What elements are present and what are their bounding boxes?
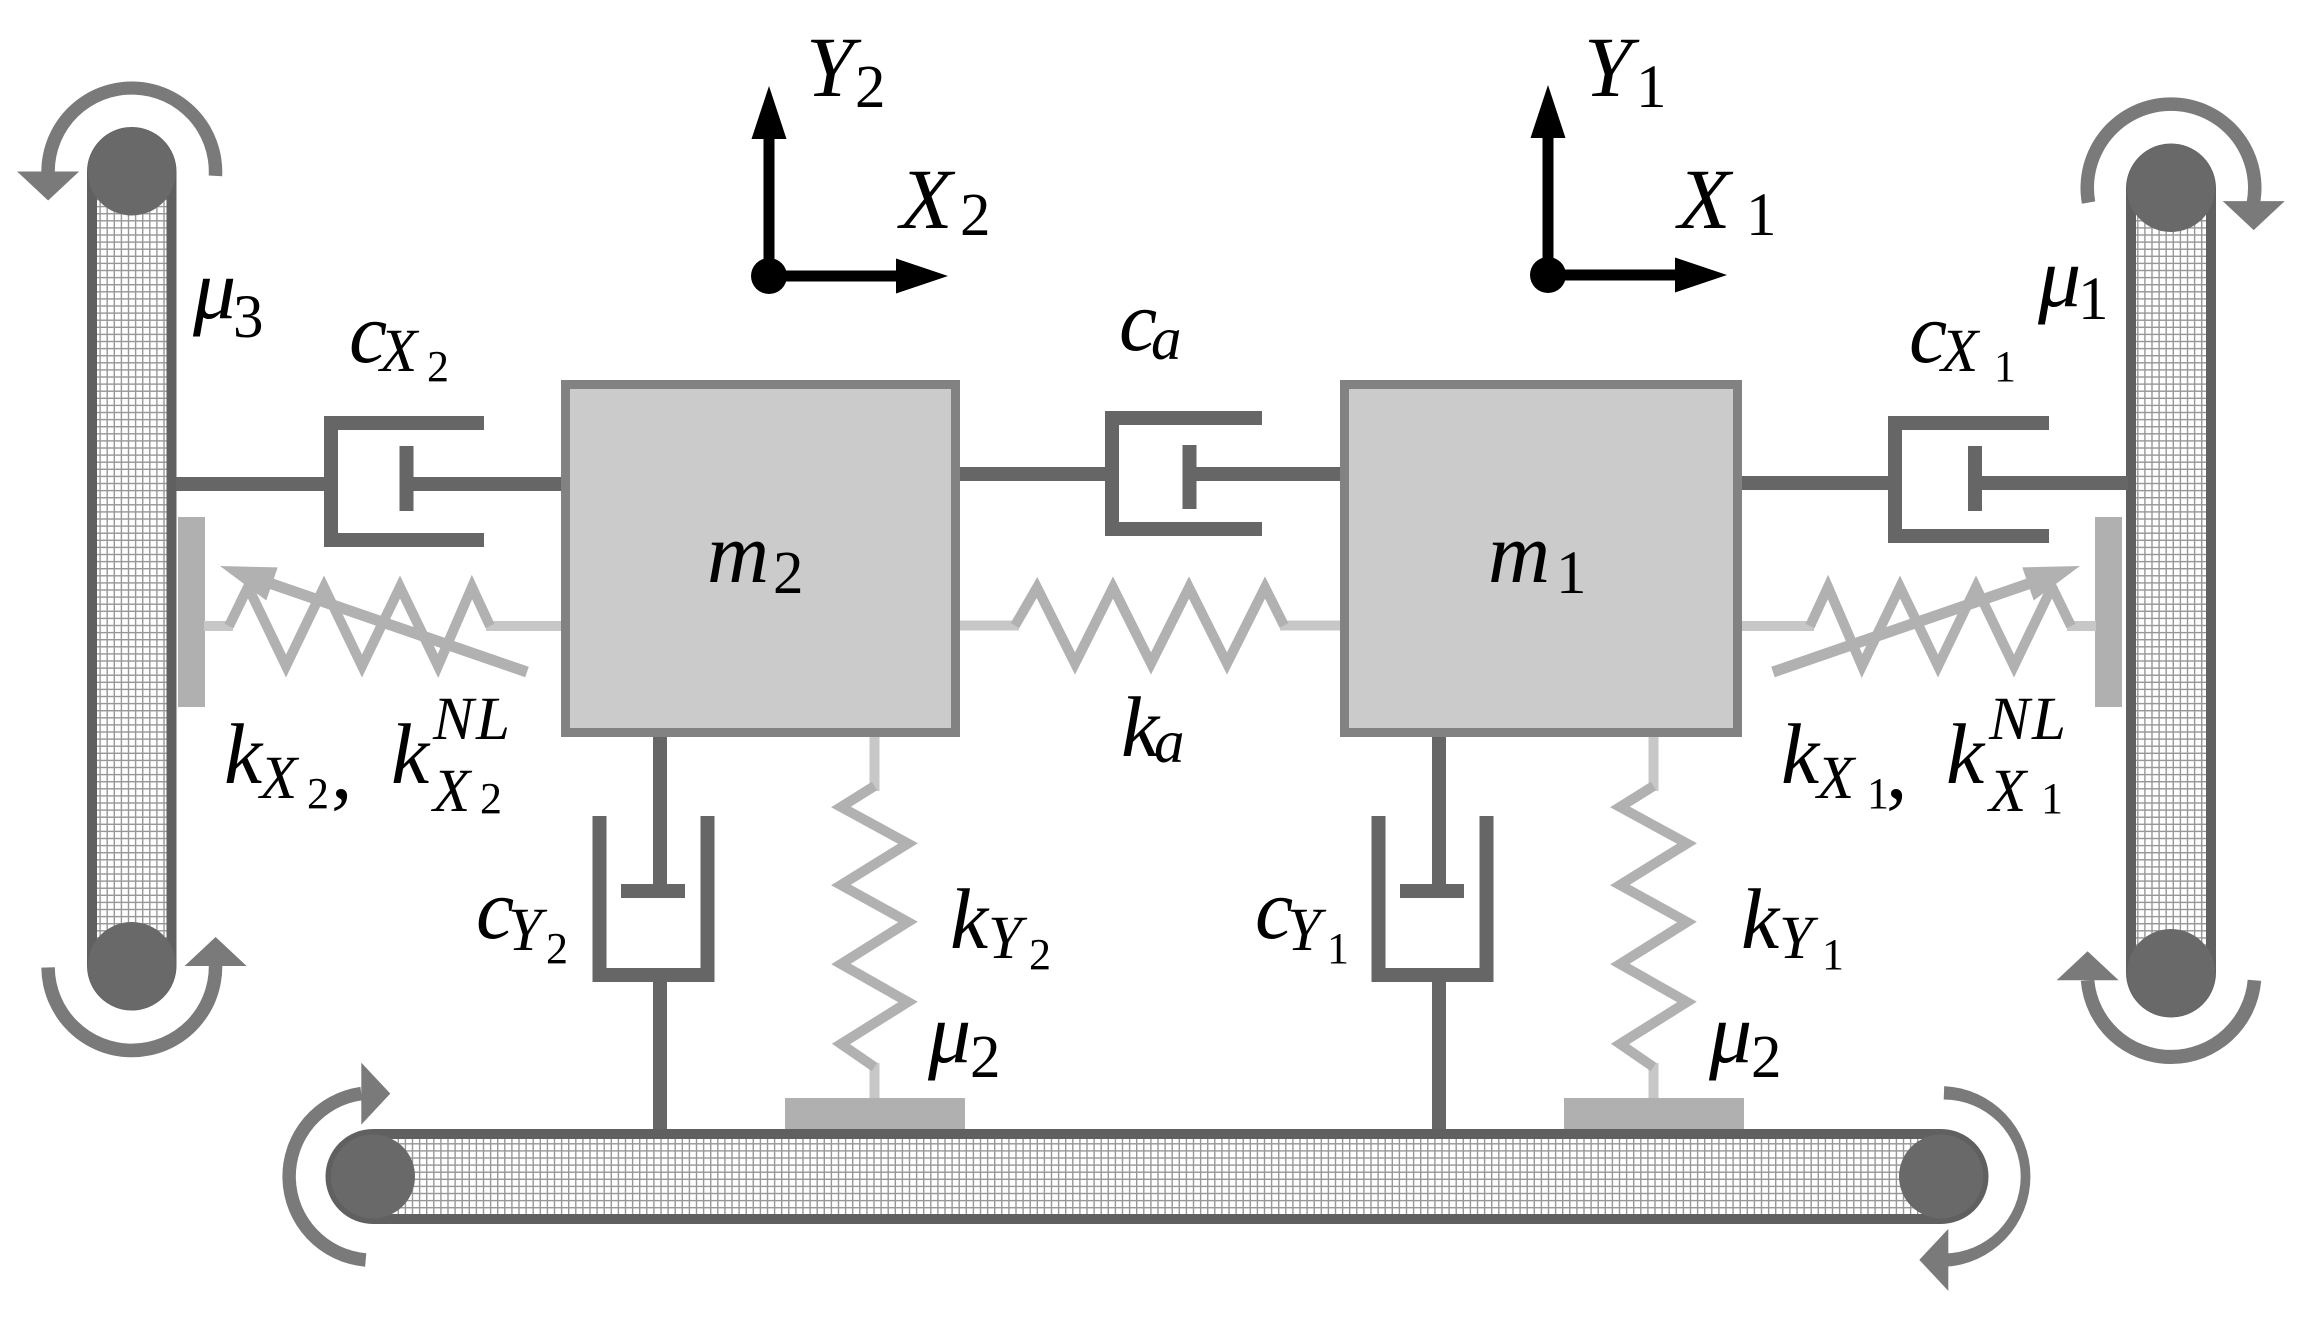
svg-text:μ: μ (192, 241, 236, 337)
pulley (bottom belt right) (1899, 1135, 1983, 1219)
spring kX1 / kX1^NL (nonlinear, m1 to right belt pad) (2067, 621, 2096, 631)
svg-text:m: m (707, 505, 769, 601)
rotation arrow (bottom belt right, clockwise) (1944, 1086, 2031, 1267)
damper cX2 (176, 423, 563, 540)
svg-text:X: X (1675, 151, 1734, 247)
svg-text:1: 1 (1327, 924, 1349, 973)
belt mu3 (left vertical moving surface) (92, 132, 172, 1006)
svg-text:2: 2 (773, 540, 804, 607)
svg-text:2: 2 (1751, 1024, 1782, 1091)
svg-text:Y: Y (1584, 19, 1640, 115)
svg-text:k: k (224, 706, 264, 802)
rotation arrow (right belt bottom, clockwise) (2081, 980, 2261, 1064)
nonlinearity arrow through spring kX2 (263, 581, 528, 672)
svg-text:μ: μ (1708, 985, 1752, 1081)
belt mu1 (right vertical moving surface) (2131, 149, 2211, 1013)
svg-text:N: N (432, 686, 477, 753)
rotation arrow (left belt top, counter-clockwise) (41, 81, 222, 176)
svg-text:k: k (391, 706, 431, 802)
svg-text:2: 2 (1029, 930, 1051, 979)
svg-text:X: X (377, 318, 420, 385)
coordinate axes X1-Y1 (above m1) (1548, 134, 1679, 275)
svg-text:m: m (1488, 505, 1550, 601)
svg-text:a: a (1151, 306, 1182, 373)
svg-text:L: L (475, 686, 510, 753)
svg-text:X: X (897, 151, 956, 247)
svg-text:3: 3 (233, 284, 264, 351)
svg-text:X: X (430, 758, 473, 825)
pulley (right belt top) (2127, 144, 2215, 232)
pulley (bottom belt left) (331, 1135, 415, 1219)
svg-text:,: , (1886, 721, 1908, 817)
svg-text:2: 2 (427, 342, 449, 391)
friction pad on bottom belt under m1 (mu2 contact) (1564, 1098, 1744, 1129)
friction pad on right belt (kX1 contact) (2095, 517, 2122, 707)
svg-text:μ: μ (927, 985, 971, 1081)
belt mu2 (bottom horizontal moving surface) (331, 1134, 1984, 1219)
svg-text:a: a (1154, 709, 1185, 776)
svg-text:L: L (2031, 686, 2066, 753)
spring kY2 (below m2) (870, 735, 880, 791)
damper cY1 (1379, 735, 1487, 1129)
spring kX2 / kX2^NL (nonlinear, m2 to left belt pad) (204, 621, 233, 631)
mass m1 (1345, 385, 1738, 733)
svg-text:k: k (1741, 871, 1781, 967)
svg-text:1: 1 (2041, 774, 2063, 823)
friction pad on bottom belt under m2 (mu2 contact) (785, 1098, 965, 1129)
damper cY2 (600, 735, 708, 1129)
svg-text:X: X (1986, 758, 2029, 825)
svg-text:Y: Y (806, 19, 862, 115)
coordinate axes X2-Y2 (above m2) (769, 135, 900, 276)
rotation arrow (right belt top, clockwise) (2081, 97, 2262, 203)
svg-text:2: 2 (960, 182, 991, 249)
svg-text:1: 1 (1994, 342, 2016, 391)
damper ca (958, 418, 1342, 529)
svg-text:,: , (331, 721, 353, 817)
svg-text:1: 1 (1556, 540, 1587, 607)
svg-text:2: 2 (480, 774, 502, 823)
mass m2 (566, 385, 956, 733)
svg-text:1: 1 (1746, 182, 1777, 249)
spring kY1 (below m1) (1649, 735, 1659, 791)
damper cX1 (1740, 423, 2128, 536)
pulley (right belt bottom) (2127, 929, 2215, 1017)
svg-text:N: N (1988, 686, 2033, 753)
svg-text:k: k (950, 871, 990, 967)
pulley (left belt top) (88, 128, 176, 216)
svg-text:1: 1 (1636, 54, 1667, 121)
svg-text:2: 2 (970, 1024, 1001, 1091)
rotation arrow (bottom belt left, clockwise) (282, 1087, 366, 1267)
svg-text:2: 2 (546, 924, 568, 973)
svg-text:1: 1 (2078, 266, 2109, 333)
svg-text:X: X (257, 745, 300, 812)
svg-text:X: X (1938, 318, 1981, 385)
friction pad on left belt (kX2 contact) (178, 517, 205, 707)
spring ka (between m2 and m1) (960, 621, 1019, 631)
svg-text:X: X (1814, 745, 1857, 812)
svg-text:1: 1 (1822, 930, 1844, 979)
svg-text:k: k (1781, 706, 1821, 802)
pulley (left belt bottom) (88, 922, 176, 1010)
svg-text:2: 2 (307, 769, 329, 818)
svg-text:μ: μ (2037, 229, 2081, 325)
rotation arrow (left belt bottom, counter-clockwise) (41, 966, 222, 1057)
svg-text:k: k (1946, 706, 1986, 802)
nonlinearity arrow through spring kX1 (1773, 581, 2038, 672)
svg-text:2: 2 (855, 54, 886, 121)
